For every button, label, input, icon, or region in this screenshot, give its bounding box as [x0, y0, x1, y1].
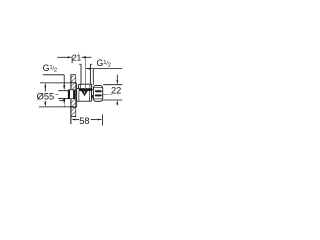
outlet pipe (vertical)	[79, 64, 92, 84]
dimension 22 (right)	[103, 75, 122, 106]
threaded bushing at wall face	[68, 90, 75, 99]
dimension 21 (top)	[57, 56, 91, 63]
rosette (escutcheon)	[71, 83, 77, 108]
valve body	[77, 89, 92, 102]
svg-text:22: 22	[111, 86, 121, 96]
inlet pipe in wall	[58, 91, 68, 101]
dark band (body top)	[79, 89, 92, 91]
handle collar	[92, 90, 94, 99]
valve seat (dark V)	[81, 91, 88, 96]
wall face line (also 58 left extension)	[70, 75, 72, 125]
pipe center line	[84, 56, 86, 88]
svg-text:58: 58	[79, 116, 89, 126]
handle (knurled knob)	[93, 85, 102, 101]
wall hatching	[62, 61, 88, 150]
svg-text:Ø55: Ø55	[37, 92, 55, 102]
compression nut	[79, 84, 92, 89]
dimension 58 (bottom)	[76, 114, 103, 125]
wall edges	[71, 75, 76, 117]
horizontal center line of valve axis	[55, 93, 112, 95]
svg-text:21: 21	[72, 53, 82, 63]
